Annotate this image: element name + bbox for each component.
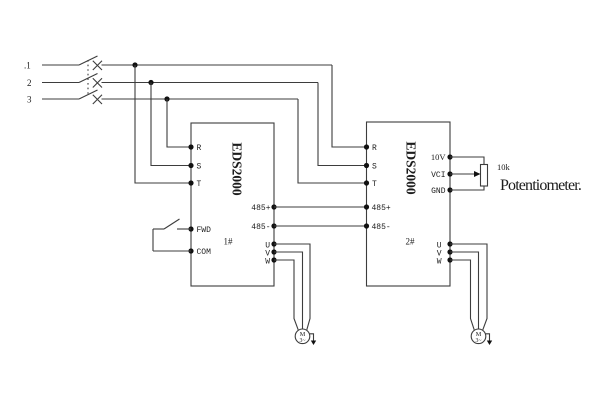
terminal dot U1 R <box>188 144 193 149</box>
svg-text:R: R <box>372 144 377 153</box>
switch QS blade phase2 <box>79 74 98 83</box>
switch QS blade phase3 <box>79 90 98 99</box>
svg-text:3~: 3~ <box>475 338 481 344</box>
svg-text:485+: 485+ <box>251 204 270 213</box>
wire U1-W to motor M1 <box>274 260 298 330</box>
switch QS blade phase1 <box>79 56 98 65</box>
svg-text:2: 2 <box>27 78 32 88</box>
wire phase2 bus <box>102 82 319 84</box>
wire VCI to wiper <box>450 173 475 175</box>
svg-text:485+: 485+ <box>372 204 391 213</box>
wire RS485+ bus <box>274 206 367 208</box>
svg-text:10k: 10k <box>497 162 511 172</box>
wire phase3 bus <box>102 98 299 100</box>
terminal dot U1 485+ <box>271 204 276 209</box>
svg-text:.1: .1 <box>24 61 31 71</box>
junction phase3-inverter1 <box>164 96 169 101</box>
terminal dot U2 GND <box>447 187 452 192</box>
svg-text:2#: 2# <box>406 237 416 247</box>
svg-text:VCI: VCI <box>431 171 445 180</box>
terminal dot U2 VCI <box>447 171 452 176</box>
fuse X phase1 <box>93 61 102 70</box>
svg-text:3: 3 <box>27 95 32 105</box>
inverter U1 body <box>191 123 274 286</box>
ground motor M2 <box>487 341 492 346</box>
terminal dot U2 485- <box>364 223 369 228</box>
svg-text:T: T <box>197 180 202 189</box>
terminal dot U2 T <box>364 180 369 185</box>
svg-text:S: S <box>372 163 377 172</box>
terminal dot U2 W <box>447 257 452 262</box>
wiper arrow RP1 <box>474 171 481 177</box>
junction phase2-inverter1 <box>148 80 153 85</box>
wire phase2 to S of U1 <box>151 83 191 166</box>
motor M2 circle <box>471 329 486 344</box>
terminal dot U1 T <box>188 180 193 185</box>
terminal dot U2 U <box>447 241 452 246</box>
wire motor M1 earth lead <box>310 334 314 341</box>
wire phase1 to T of U1 <box>135 65 191 183</box>
svg-text:R: R <box>197 144 202 153</box>
wire phase2 input <box>42 82 79 84</box>
switch QS link dashed <box>87 60 89 95</box>
wire U1-V to motor M1 <box>274 252 303 329</box>
terminal dot U1 S <box>188 163 193 168</box>
terminal dot U1 U <box>271 241 276 246</box>
switch K run command vertical wire <box>152 229 154 251</box>
terminal dot U1 W <box>271 257 276 262</box>
svg-text:10V: 10V <box>431 152 447 162</box>
fuse X phase2 <box>93 78 102 87</box>
svg-text:3~: 3~ <box>299 338 305 344</box>
svg-text:W: W <box>437 258 442 267</box>
svg-text:COM: COM <box>197 248 212 257</box>
terminal dot U2 10V <box>447 154 452 159</box>
wire blade to FWD <box>177 228 191 230</box>
svg-text:1#: 1# <box>224 237 234 247</box>
ground motor M1 <box>311 341 316 346</box>
wire U2-U to motor M2 <box>450 244 487 330</box>
terminal dot U1 COM <box>188 248 193 253</box>
wire U1-U to motor M1 <box>274 244 310 330</box>
svg-text:Potentiometer.: Potentiometer. <box>500 177 581 194</box>
wire U2-W to motor M2 <box>450 260 474 330</box>
potentiometer RP1 body <box>481 165 488 187</box>
wire 10V to potentiometer top <box>450 157 484 165</box>
wire phase3 input <box>42 98 79 100</box>
svg-text:485-: 485- <box>372 223 391 232</box>
svg-text:EDS2000: EDS2000 <box>404 141 419 195</box>
svg-text:W: W <box>265 258 270 267</box>
wire phase3 to R of U1 <box>167 99 191 147</box>
svg-text:M: M <box>476 331 482 338</box>
wire GND to potentiometer bottom <box>450 186 484 190</box>
wire motor M2 earth lead <box>486 334 490 341</box>
terminal dot U2 R <box>364 144 369 149</box>
svg-text:T: T <box>372 180 377 189</box>
svg-text:M: M <box>300 331 306 338</box>
svg-text:S: S <box>197 163 202 172</box>
wire K to COM <box>153 250 191 252</box>
terminal dot U1 485- <box>271 223 276 228</box>
fuse X phase3 <box>93 95 102 104</box>
junction phase1-inverter1 <box>132 62 137 67</box>
terminal dot U1 V <box>271 249 276 254</box>
motor M1 circle <box>295 329 310 344</box>
wire phase1 to R of U2 <box>332 65 367 147</box>
wire U2-V to motor M2 <box>450 252 479 329</box>
wire RS485- bus <box>274 225 367 227</box>
terminal dot U2 485+ <box>364 204 369 209</box>
terminal dot U2 S <box>364 163 369 168</box>
svg-text:485-: 485- <box>251 223 270 232</box>
svg-text:GND: GND <box>431 187 446 196</box>
svg-text:EDS2000: EDS2000 <box>230 142 245 196</box>
wire K to blade pivot <box>153 228 164 230</box>
terminal dot U1 FWD <box>188 226 193 231</box>
svg-text:FWD: FWD <box>197 226 212 235</box>
inverter U2 body <box>367 122 451 286</box>
wire phase1 bus <box>102 64 333 66</box>
switch K blade <box>164 219 180 229</box>
wire phase3 to T of U2 <box>298 99 367 183</box>
wire phase2 to S of U2 <box>318 83 367 166</box>
terminal dot U2 V <box>447 249 452 254</box>
wire phase1 input <box>42 64 79 66</box>
